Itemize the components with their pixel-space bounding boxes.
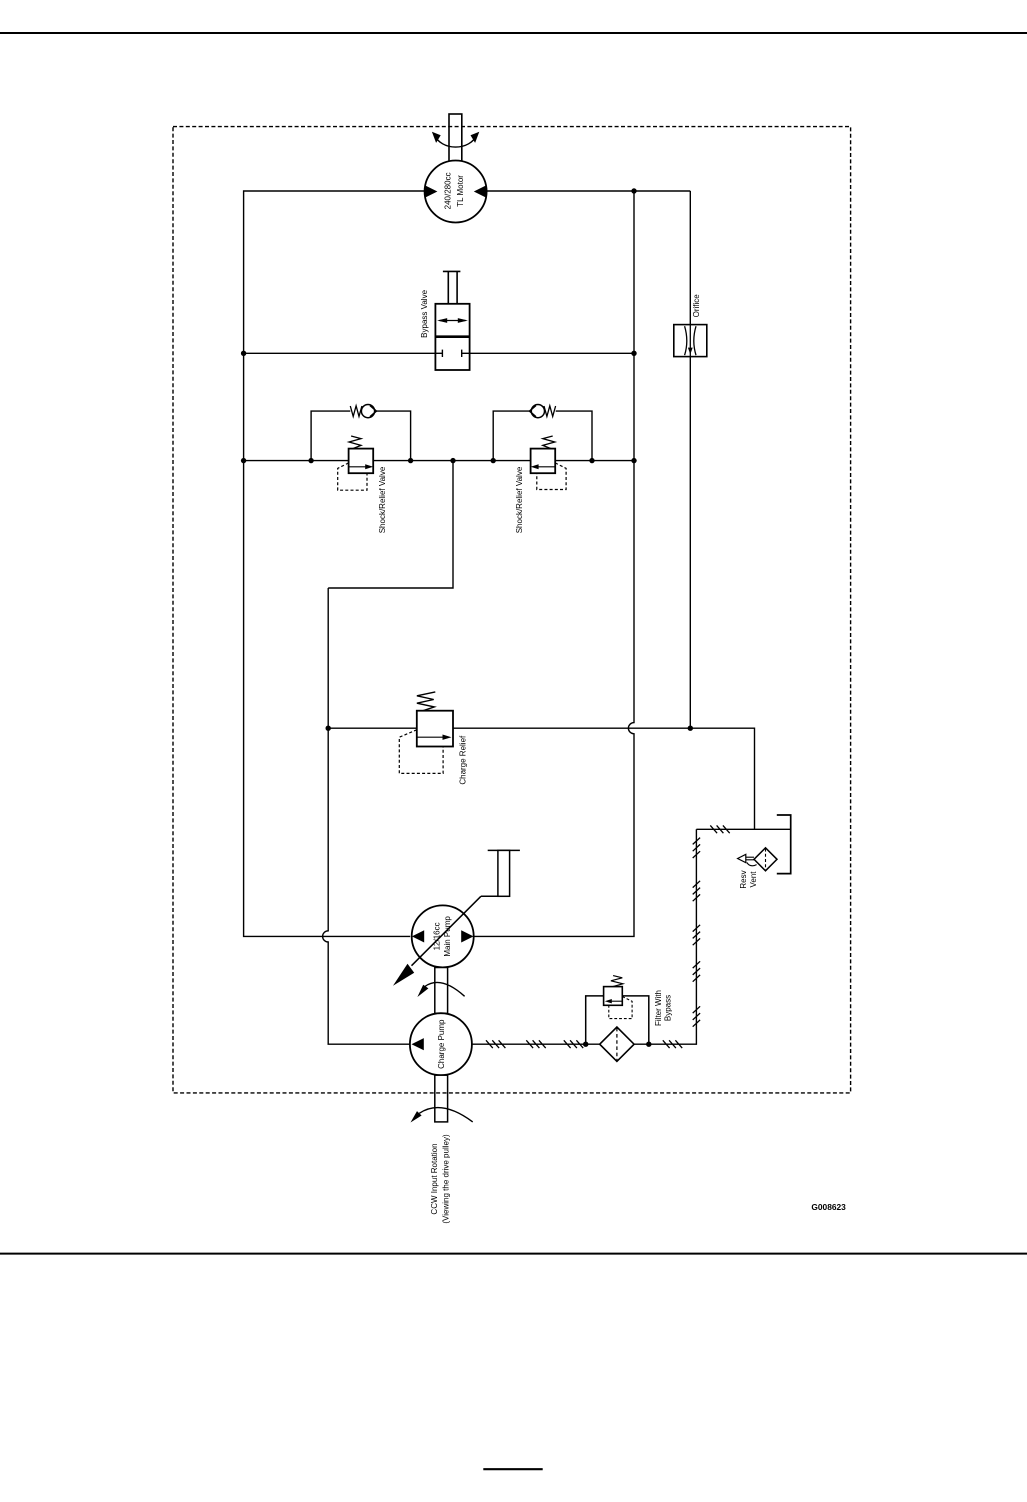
svg-text:Main Pump: Main Pump [443, 916, 452, 957]
filter element (diamond) [600, 1027, 634, 1061]
wire: right check valve loop [493, 411, 592, 461]
svg-text:12/16cc: 12/16cc [433, 922, 442, 950]
main pump variable displacement arrow [412, 896, 481, 965]
svg-text:Shock/Relief Valve: Shock/Relief Valve [378, 466, 387, 533]
wire: center loop link down-left [328, 461, 453, 588]
wire: charge relief line across to right drop [328, 728, 754, 829]
label: Resv Vent [739, 870, 758, 888]
charge relief valve spring [417, 692, 435, 711]
main pump P1 (12/16cc Main Pump) [412, 905, 474, 967]
wire: second left vertical (with hop over main pump line) down to charge pump [323, 588, 410, 1044]
svg-text:TL Motor: TL Motor [456, 175, 465, 207]
left shock/relief valve spring [349, 436, 361, 449]
motor rotation double arrow [435, 135, 477, 147]
filter bypass relief pilot line (dashed) [609, 997, 632, 1019]
svg-text:G008623: G008623 [811, 1202, 846, 1212]
wire: bypass valve line [244, 352, 634, 354]
svg-text:Bypass: Bypass [664, 995, 673, 1021]
wire: orifice vertical line [689, 191, 691, 728]
right shock/relief valve pilot line (dashed) [537, 463, 566, 490]
hydraulic motor M1 (240/280cc TL Motor) [425, 161, 487, 223]
svg-text:Vent: Vent [749, 871, 758, 888]
left shock/relief valve body [349, 449, 374, 474]
right check valve (seat, ball, spring) [531, 405, 544, 418]
hose marks on return line (vertical) [693, 838, 700, 1027]
svg-text:(Viewing the drive pulley): (Viewing the drive pulley) [441, 1134, 450, 1224]
left check valve (spring, ball, seat) [350, 406, 362, 417]
bypass valve lower position: blocked ports [435, 350, 469, 357]
right shock/relief valve body [531, 449, 556, 474]
bypass valve pin actuator [443, 271, 461, 303]
bypass valve upper position: through-path double arrow [439, 320, 465, 322]
shaft rotation arrow (upper) [425, 982, 465, 996]
svg-text:Resv: Resv [739, 870, 748, 888]
hose marks on suction line (horizontal) [486, 825, 730, 1048]
schematic boundary (dashed) [173, 127, 851, 1093]
svg-text:Orifice: Orifice [692, 294, 701, 318]
footer divider line [483, 1468, 542, 1470]
right shock/relief valve spring [543, 436, 555, 449]
left shock/relief valve pilot line (dashed) [338, 463, 367, 490]
wire: return line from reservoir down and to filter/charge pump [472, 829, 696, 1044]
reservoir (tank) [777, 815, 791, 874]
svg-text:Charge Relief: Charge Relief [458, 735, 467, 785]
wire: right bus vertical (with hop over charge relief line) [474, 191, 634, 936]
svg-text:Bypass Valve: Bypass Valve [420, 289, 429, 337]
bottom rule [0, 1253, 1027, 1255]
main pump displacement lever [481, 850, 520, 896]
svg-text:240/280cc: 240/280cc [444, 172, 453, 209]
orifice [674, 325, 707, 357]
svg-text:Charge Pump: Charge Pump [437, 1019, 446, 1069]
charge pump input shaft [435, 1075, 448, 1122]
charge relief valve body [417, 711, 453, 747]
input shaft rotation arrow [419, 1108, 472, 1122]
svg-text:Filter With: Filter With [654, 990, 663, 1026]
reservoir vent (diamond with arrow) [754, 848, 777, 871]
label: Filter With Bypass [654, 990, 673, 1026]
wire: left bus from motor left port down to main pump [244, 191, 425, 936]
charge relief valve pilot line (dashed) [399, 730, 443, 774]
svg-text:CCW Input Rotation: CCW Input Rotation [430, 1143, 439, 1214]
wire: shock relief bus [244, 460, 634, 462]
bypass valve body [435, 304, 469, 370]
svg-text:Shock/Relief Valve: Shock/Relief Valve [515, 466, 524, 533]
charge pump P2 [410, 1013, 472, 1075]
top rule [0, 32, 1027, 34]
hydraulic motor M1 shaft [449, 114, 462, 161]
wire: left check valve loop [311, 411, 411, 461]
wire: motor right port to orifice branch corner [487, 190, 691, 192]
label: CCW Input Rotation [430, 1134, 450, 1224]
wire: line into reservoir [696, 828, 790, 830]
filter bypass relief valve body [586, 996, 649, 1044]
pump interconnect shaft [435, 968, 448, 1014]
filter bypass relief valve spring [611, 976, 623, 987]
